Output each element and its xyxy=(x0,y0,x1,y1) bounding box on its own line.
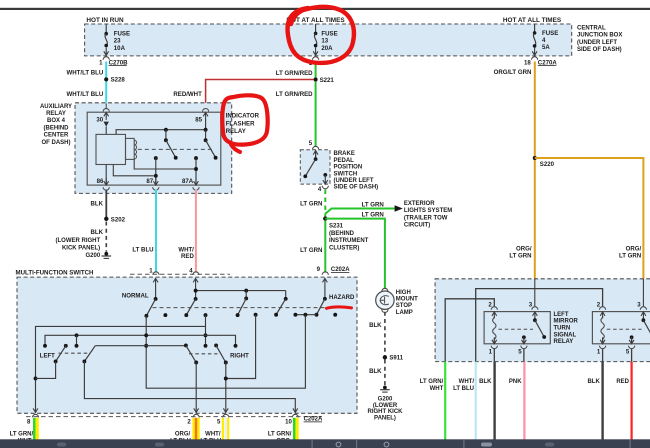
svg-text:ORG/LT GRN: ORG/LT GRN xyxy=(494,69,532,76)
svg-text:LT GRN: LT GRN xyxy=(509,253,531,260)
label WHT/LT BLU lower xyxy=(67,91,104,98)
contact dot x 255.6 down to pin5 junction xyxy=(226,313,258,379)
svg-text:LT BLU: LT BLU xyxy=(453,386,474,392)
red annotation circle around fuse 13 xyxy=(288,7,354,63)
wire LT GRN S231 to high mount stop lamp xyxy=(325,219,385,289)
wire LT GRN S231 to MFS pin 9 xyxy=(324,221,326,273)
dashed left position line xyxy=(59,352,91,354)
RIGHT switch arm 2 xyxy=(214,343,228,364)
svg-text:LIGHTS SYSTEM: LIGHTS SYSTEM xyxy=(404,208,452,214)
label HOT IN RUN xyxy=(86,17,124,24)
red annotation underline below HAZARD xyxy=(327,307,352,308)
label AUXILIARY RELAY BOX 4 xyxy=(40,104,72,146)
svg-text:RIGHT KICK: RIGHT KICK xyxy=(368,409,404,415)
svg-text:FUSE: FUSE xyxy=(114,30,130,37)
multi-function switch box xyxy=(17,277,357,413)
svg-text:FLASHER: FLASHER xyxy=(226,120,255,127)
svg-text:POSITION: POSITION xyxy=(334,165,363,171)
label RED/WHT xyxy=(173,91,202,98)
label ORG/LT BLU (pin 2) xyxy=(170,432,191,445)
left relay switch xyxy=(533,318,546,339)
svg-text:(LOWER: (LOWER xyxy=(373,403,398,409)
svg-text:WHT/: WHT/ xyxy=(459,379,475,385)
flasher switch B xyxy=(204,130,218,160)
switch arm pin 4 xyxy=(184,286,197,317)
svg-text:SIDE OF DASH): SIDE OF DASH) xyxy=(577,47,622,53)
wire right relay pin5 inside box xyxy=(631,349,633,362)
label HOT AT ALL TIMES (fuse 13) xyxy=(286,17,345,24)
svg-text:S911: S911 xyxy=(389,356,403,362)
svg-text:RELAY: RELAY xyxy=(46,111,66,117)
auxiliary relay box 4 outer dashed box xyxy=(75,103,232,194)
label CENTRAL JUNCTION BOX xyxy=(577,25,622,53)
label ORG/LT GRN (left relay) xyxy=(509,245,532,259)
left relay coil xyxy=(493,316,496,340)
LEFT switch arm 2 xyxy=(82,346,95,364)
svg-text:LT GRN/: LT GRN/ xyxy=(268,432,292,438)
contact to pin 87 xyxy=(154,156,158,185)
wire LT GRN/WHT pin 8 (striped) xyxy=(34,418,37,440)
svg-text:2: 2 xyxy=(187,418,191,425)
svg-text:CIRCUIT): CIRCUIT) xyxy=(404,223,430,229)
right arm1 to pin 2 xyxy=(195,363,197,413)
svg-text:LT GRN/RED: LT GRN/RED xyxy=(276,70,313,77)
wire PNK left relay pin 5 xyxy=(523,362,525,440)
wire LT GRN branch to exterior lights xyxy=(325,209,395,214)
rail y=345.7 left-2 tip to right-1 pivot xyxy=(95,345,186,347)
svg-text:G200: G200 xyxy=(378,397,393,403)
svg-text:S231: S231 xyxy=(329,224,344,230)
svg-text:(LOWER RIGHT: (LOWER RIGHT xyxy=(56,238,101,244)
svg-text:20A: 20A xyxy=(321,45,333,52)
MFS pin 5 xyxy=(217,408,229,425)
svg-text:AUXILIARY: AUXILIARY xyxy=(40,104,72,110)
left mirror relay box xyxy=(484,312,550,344)
relay pin 86 xyxy=(97,178,110,190)
svg-text:(BEHIND: (BEHIND xyxy=(44,125,70,131)
MFS pin 1 xyxy=(149,268,159,287)
left arm2 to pin 10 xyxy=(84,361,295,412)
svg-text:86: 86 xyxy=(97,178,104,185)
MFS pin 4 xyxy=(189,268,199,287)
connector C270A pin 18 xyxy=(524,57,557,67)
label LT GRN/WHT xyxy=(420,379,444,392)
wire LT BLU relay 87 to MFS pin 1 xyxy=(155,190,157,273)
wire RED/WHT S221 to relay pin 85 xyxy=(206,80,314,109)
svg-text:BRAKE: BRAKE xyxy=(334,151,355,157)
svg-text:ORG/: ORG/ xyxy=(516,245,532,252)
svg-text:JUNCTION BOX: JUNCTION BOX xyxy=(577,33,622,39)
svg-text:4: 4 xyxy=(318,186,322,193)
label WHT/LT BLU xyxy=(453,379,474,392)
label LEFT MIRROR TURN SIGNAL RELAY xyxy=(554,312,579,345)
wire ORG/LT BLU pin 2 (striped) xyxy=(194,418,199,440)
wire LT GRN/RED fuse13 down to brake switch xyxy=(315,62,317,147)
svg-text:13: 13 xyxy=(321,38,328,45)
splice S220 xyxy=(533,156,555,168)
red annotation circle around INDICATOR FLASHER RELAY xyxy=(222,95,267,152)
svg-text:CENTER: CENTER xyxy=(44,133,69,139)
right mirror relay box xyxy=(592,312,650,344)
svg-text:23: 23 xyxy=(114,38,121,45)
connector C270B pin 1 xyxy=(99,57,128,67)
svg-text:87A: 87A xyxy=(182,178,194,185)
svg-text:87: 87 xyxy=(146,178,153,185)
svg-text:CENTRAL: CENTRAL xyxy=(577,25,606,31)
MFS pin 2 xyxy=(187,408,199,425)
label RIGHT xyxy=(230,353,249,359)
dashed actuator line from coil xyxy=(138,148,213,150)
svg-text:30: 30 xyxy=(96,117,103,124)
svg-text:G200: G200 xyxy=(86,253,101,259)
svg-text:MULTI-FUNCTION SWITCH: MULTI-FUNCTION SWITCH xyxy=(16,270,95,277)
svg-text:BOX 4: BOX 4 xyxy=(47,118,66,124)
label BLK (below S911) xyxy=(369,368,382,375)
label INDICATOR FLASHER RELAY xyxy=(226,113,260,136)
label S231 (BEHIND INSTRUMENT CLUSTER) xyxy=(329,224,369,252)
feed wire to right relay pin 2 xyxy=(476,289,603,362)
wire BLK right relay pin 1 xyxy=(601,362,603,440)
top feed rail from pin 4 xyxy=(194,289,286,293)
svg-text:LT GRN/: LT GRN/ xyxy=(10,432,34,438)
svg-text:LT GRN: LT GRN xyxy=(300,247,322,254)
label LT GRN/ORG (pin 10) xyxy=(268,432,292,445)
wire WHT/LT BLU fuse23 to relay pin30 xyxy=(105,62,107,103)
svg-text:STOP: STOP xyxy=(396,303,412,309)
label G200 (LOWER RIGHT KICK PANEL) xyxy=(368,397,404,422)
svg-text:PANEL): PANEL) xyxy=(374,415,396,421)
splice S221 xyxy=(314,77,335,84)
svg-text:S220: S220 xyxy=(540,161,555,168)
bottom browser bar xyxy=(0,439,650,448)
ground G200 left xyxy=(102,252,112,258)
pin 1 below fuse 13 xyxy=(309,57,319,67)
svg-text:S202: S202 xyxy=(111,216,126,223)
right relay pin 2 xyxy=(597,302,606,319)
wire BLK dashed S911 to G200 xyxy=(384,360,386,386)
wire BLK left relay pin 1 xyxy=(493,362,495,440)
contact to pin 87A xyxy=(194,156,198,185)
wire BLK dashed lamp to S911 xyxy=(384,312,386,358)
svg-text:LT GRN/: LT GRN/ xyxy=(420,379,444,385)
central junction box bus xyxy=(85,24,572,56)
svg-text:5: 5 xyxy=(626,349,630,356)
ground G200 right xyxy=(380,386,390,393)
label BRAKE PEDAL POSITION SWITCH xyxy=(334,151,379,191)
fuse 4 5A xyxy=(532,24,558,55)
svg-text:WHT/LT BLU: WHT/LT BLU xyxy=(67,70,104,77)
label HIGH MOUNT STOP LAMP xyxy=(396,290,418,316)
label G200 (LOWER RIGHT KICK PANEL) xyxy=(56,238,101,259)
svg-text:RIGHT: RIGHT xyxy=(230,353,249,359)
connector C202A label bottom xyxy=(304,417,323,423)
arrow to exterior lights system xyxy=(395,205,403,212)
label LT GRN/RED lower xyxy=(276,91,313,98)
splice S231 xyxy=(323,216,327,220)
contact dot chain at x 205.5 xyxy=(204,313,208,348)
connector C202A label top xyxy=(331,267,350,273)
wire coil top to 85 rail xyxy=(116,130,206,135)
brake pedal position switch pin 5 xyxy=(309,140,319,149)
svg-text:FUSE: FUSE xyxy=(321,30,337,37)
RIGHT switch arm 1 xyxy=(184,343,198,364)
label RED xyxy=(616,379,629,385)
svg-text:KICK PANEL): KICK PANEL) xyxy=(62,245,100,251)
svg-text:NORMAL: NORMAL xyxy=(122,292,149,299)
svg-text:WHT: WHT xyxy=(430,386,444,392)
wire coil bottom leads xyxy=(113,159,194,175)
left relay pin 1 xyxy=(489,337,498,355)
label LT GRN/RED upper xyxy=(276,70,313,77)
wire right relay pin1 inside box xyxy=(602,349,604,362)
left relay pin 3 xyxy=(529,279,538,319)
NORMAL switch arm (pin 1) xyxy=(144,286,157,318)
label LT BLU xyxy=(132,247,154,254)
svg-text:ORG/: ORG/ xyxy=(175,432,191,438)
svg-text:5A: 5A xyxy=(542,44,550,51)
MFS pin 8 xyxy=(27,408,39,425)
fuse 13 20A xyxy=(313,24,337,55)
MFS pin 10 xyxy=(285,408,298,425)
svg-text:RED: RED xyxy=(616,379,629,385)
label PNK xyxy=(509,379,522,385)
svg-text:SIGNAL: SIGNAL xyxy=(554,332,577,338)
svg-text:S228: S228 xyxy=(111,77,126,84)
relay pin 87A xyxy=(182,178,199,190)
svg-text:LT BLU: LT BLU xyxy=(132,247,154,254)
label BLK right xyxy=(587,379,600,385)
wire coil bottom to pin 86 xyxy=(105,165,107,186)
svg-text:WHT/LT BLU: WHT/LT BLU xyxy=(67,91,104,98)
svg-text:PEDAL: PEDAL xyxy=(334,158,355,164)
label ORG/LT GRN (right relay) xyxy=(619,245,642,259)
svg-text:EXTERIOR: EXTERIOR xyxy=(404,201,435,207)
svg-text:FUSE: FUSE xyxy=(542,30,558,37)
svg-text:LAMP: LAMP xyxy=(396,310,413,316)
fuse 23 10A xyxy=(104,24,130,55)
svg-text:INSTRUMENT: INSTRUMENT xyxy=(329,238,369,244)
wire ORG/LT GRN down to left mirror relay pin 3 xyxy=(534,62,536,279)
junction dots on normal chain xyxy=(144,344,148,348)
svg-text:ORG/: ORG/ xyxy=(626,245,642,252)
brake pedal position switch box xyxy=(300,150,330,184)
label LT GRN xyxy=(300,200,322,207)
label LEFT xyxy=(40,354,55,360)
svg-text:LT GRN: LT GRN xyxy=(619,253,641,260)
svg-text:BLK: BLK xyxy=(369,322,382,329)
svg-text:LT GRN/RED: LT GRN/RED xyxy=(276,91,313,98)
svg-text:HOT IN RUN: HOT IN RUN xyxy=(86,17,124,24)
connector line C202A bottom xyxy=(26,416,322,418)
wire LT GRN dashed brake switch to S231 xyxy=(324,190,326,219)
right relay pin 3 xyxy=(637,279,646,319)
wire left relay pin1 inside box xyxy=(493,349,495,362)
flasher relay inner box xyxy=(87,112,221,185)
svg-text:85: 85 xyxy=(195,117,202,124)
svg-text:HOT AT ALL TIMES: HOT AT ALL TIMES xyxy=(503,17,562,24)
high mount stop lamp xyxy=(376,288,394,312)
rail y=335 xyxy=(43,333,237,347)
svg-text:HIGH: HIGH xyxy=(396,290,411,296)
right relay dashed actuator xyxy=(607,328,642,330)
left relay contact to pin 5 xyxy=(522,335,526,342)
svg-text:(TRAILER TOW: (TRAILER TOW xyxy=(404,215,448,221)
label BLK (lamp) xyxy=(369,322,382,329)
top page border line xyxy=(0,8,650,10)
relay pin 30 xyxy=(96,103,109,134)
svg-text:TURN: TURN xyxy=(554,326,571,332)
right relay coil xyxy=(601,316,604,340)
contact stub x76.5 xyxy=(75,335,79,347)
svg-text:INDICATOR: INDICATOR xyxy=(226,113,260,120)
flasher switch A xyxy=(164,130,178,160)
svg-text:MIRROR: MIRROR xyxy=(554,319,579,325)
left relay pin 2 xyxy=(488,302,497,319)
label HOT AT ALL TIMES (fuse 4) xyxy=(503,17,562,24)
svg-text:OF DASH): OF DASH) xyxy=(42,140,71,146)
switch arm 3 (stub fed) xyxy=(236,291,248,317)
svg-text:RELAY: RELAY xyxy=(226,128,246,135)
hazard middle contact to normal chain xyxy=(146,315,305,389)
svg-text:18: 18 xyxy=(524,59,531,66)
svg-text:WHT/: WHT/ xyxy=(205,432,221,438)
flasher coil box xyxy=(96,134,137,164)
svg-text:RED/WHT: RED/WHT xyxy=(173,91,202,98)
floating contact dot right of hazard xyxy=(333,313,337,317)
contact dot for NORMAL arm xyxy=(163,313,167,317)
right relay switch xyxy=(642,318,650,335)
svg-text:LT GRN: LT GRN xyxy=(362,202,384,209)
wire WHT/RED relay 87A to MFS pin 4 xyxy=(195,190,197,273)
label BLK xyxy=(90,200,103,207)
svg-text:BLK: BLK xyxy=(479,379,492,385)
label LT GRN (pin9) xyxy=(300,247,322,254)
left relay dashed actuator xyxy=(499,328,534,330)
svg-text:RELAY: RELAY xyxy=(554,339,574,345)
svg-text:RED: RED xyxy=(181,253,194,260)
wire left relay pin5 inside box xyxy=(523,349,525,362)
label MULTI-FUNCTION SWITCH xyxy=(16,270,95,277)
right relay pin 5 xyxy=(626,337,635,355)
svg-text:SIDE OF DASH): SIDE OF DASH) xyxy=(334,185,379,191)
left arm1 to pin8 rail xyxy=(36,361,56,378)
brake switch interior xyxy=(303,151,327,185)
dashed right position line xyxy=(189,353,218,355)
mirror relays dashed box xyxy=(435,279,650,362)
svg-text:HAZARD: HAZARD xyxy=(329,295,355,301)
label LT GRN (upper branch) xyxy=(362,202,384,209)
svg-text:LEFT: LEFT xyxy=(40,354,55,360)
relay pin 87 xyxy=(146,178,158,190)
wire LT GRN/WHT below box xyxy=(444,362,446,440)
svg-text:(BEHIND: (BEHIND xyxy=(329,231,355,237)
wire LT GRN/ORG pin 10 (striped) xyxy=(294,418,297,440)
switch arm 4 (corner fed) xyxy=(274,291,288,317)
splice S202 xyxy=(104,216,126,223)
svg-text:BLK: BLK xyxy=(90,229,103,236)
svg-text:BLK: BLK xyxy=(90,200,103,207)
wire RED right relay pin 5 xyxy=(630,362,632,440)
svg-text:LEFT: LEFT xyxy=(554,312,569,318)
label LT GRN (lamp branch) xyxy=(362,212,384,219)
MFS pin 9 xyxy=(317,266,329,286)
feed wire to left relay pin 2 xyxy=(445,299,494,362)
svg-text:CLUSTER): CLUSTER) xyxy=(329,245,359,251)
label LT GRN/WHT (pin 8) xyxy=(10,432,34,445)
label HAZARD xyxy=(329,295,355,301)
label WHT/LT BLU upper xyxy=(67,70,104,77)
svg-text:(UNDER LEFT: (UNDER LEFT xyxy=(577,40,617,46)
splice S228 xyxy=(104,77,125,84)
svg-text:SWITCH: SWITCH xyxy=(334,171,358,177)
dashed normal position line xyxy=(153,307,337,309)
connector line C202A top xyxy=(130,273,230,275)
left relay pin 5 xyxy=(518,337,527,355)
LEFT switch arm 1 xyxy=(54,344,68,364)
wire WHT/LT BLU below box xyxy=(475,362,477,440)
label WHT/LT BLU (pin 5) xyxy=(200,432,221,445)
svg-text:(UNDER LEFT: (UNDER LEFT xyxy=(334,178,374,184)
right relay pin 1 xyxy=(597,337,606,355)
svg-text:BLK: BLK xyxy=(369,368,382,375)
right relay contact to pin 5 xyxy=(630,335,634,342)
svg-text:10A: 10A xyxy=(114,45,126,52)
svg-text:PNK: PNK xyxy=(509,379,522,385)
junction dots on 85 rail xyxy=(164,128,208,132)
svg-text:1: 1 xyxy=(597,349,601,356)
relay pin 85 xyxy=(195,109,208,130)
rail to pin 8 xyxy=(34,326,206,412)
hazard contact link xyxy=(293,313,316,317)
label NORMAL xyxy=(122,292,149,299)
splice S911 xyxy=(383,355,404,362)
label WHT/RED xyxy=(178,247,194,260)
HAZARD switch arm (pin 9) xyxy=(315,286,327,317)
wire ORG/LT GRN branch to right mirror relay pin 3 xyxy=(535,158,644,279)
label BLK xyxy=(479,379,492,385)
wire BLK dashed S202 to G200 xyxy=(105,222,107,252)
right arm2 to pin 5 xyxy=(224,363,228,413)
svg-text:LT GRN: LT GRN xyxy=(362,212,384,219)
label EXTERIOR LIGHTS SYSTEM (TRAILER TOW CIRCUIT) xyxy=(404,201,452,229)
wire WHT/LT BLU pin 5 (striped) xyxy=(223,418,228,440)
svg-text:LT GRN: LT GRN xyxy=(300,200,322,207)
wire BLK relay pin 86 to S202 xyxy=(105,190,107,219)
svg-text:BLK: BLK xyxy=(587,379,600,385)
svg-text:MOUNT: MOUNT xyxy=(396,297,418,303)
label ORG/LT GRN xyxy=(494,69,532,76)
svg-text:S221: S221 xyxy=(320,77,335,84)
svg-text:10: 10 xyxy=(285,418,292,425)
brake switch pin 4 xyxy=(318,186,328,194)
label BLK lower xyxy=(90,229,103,236)
